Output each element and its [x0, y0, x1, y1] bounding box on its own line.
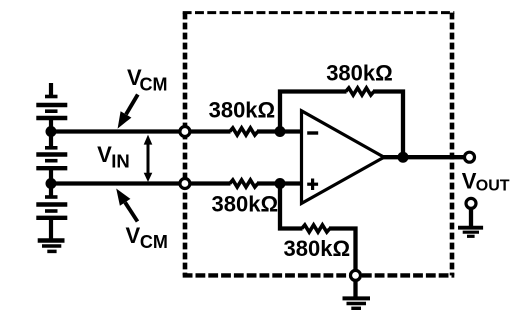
svg-text:OUT: OUT	[476, 178, 510, 195]
svg-text:IN: IN	[111, 150, 130, 171]
svg-text:CM: CM	[140, 232, 168, 252]
svg-text:380kΩ: 380kΩ	[209, 97, 276, 122]
svg-text:380kΩ: 380kΩ	[326, 61, 393, 86]
svg-text:V: V	[126, 223, 141, 248]
svg-text:380kΩ: 380kΩ	[212, 192, 279, 217]
svg-text:V: V	[97, 142, 112, 167]
svg-text:V: V	[462, 169, 477, 194]
svg-text:380kΩ: 380kΩ	[284, 236, 351, 261]
svg-text:CM: CM	[140, 75, 168, 95]
